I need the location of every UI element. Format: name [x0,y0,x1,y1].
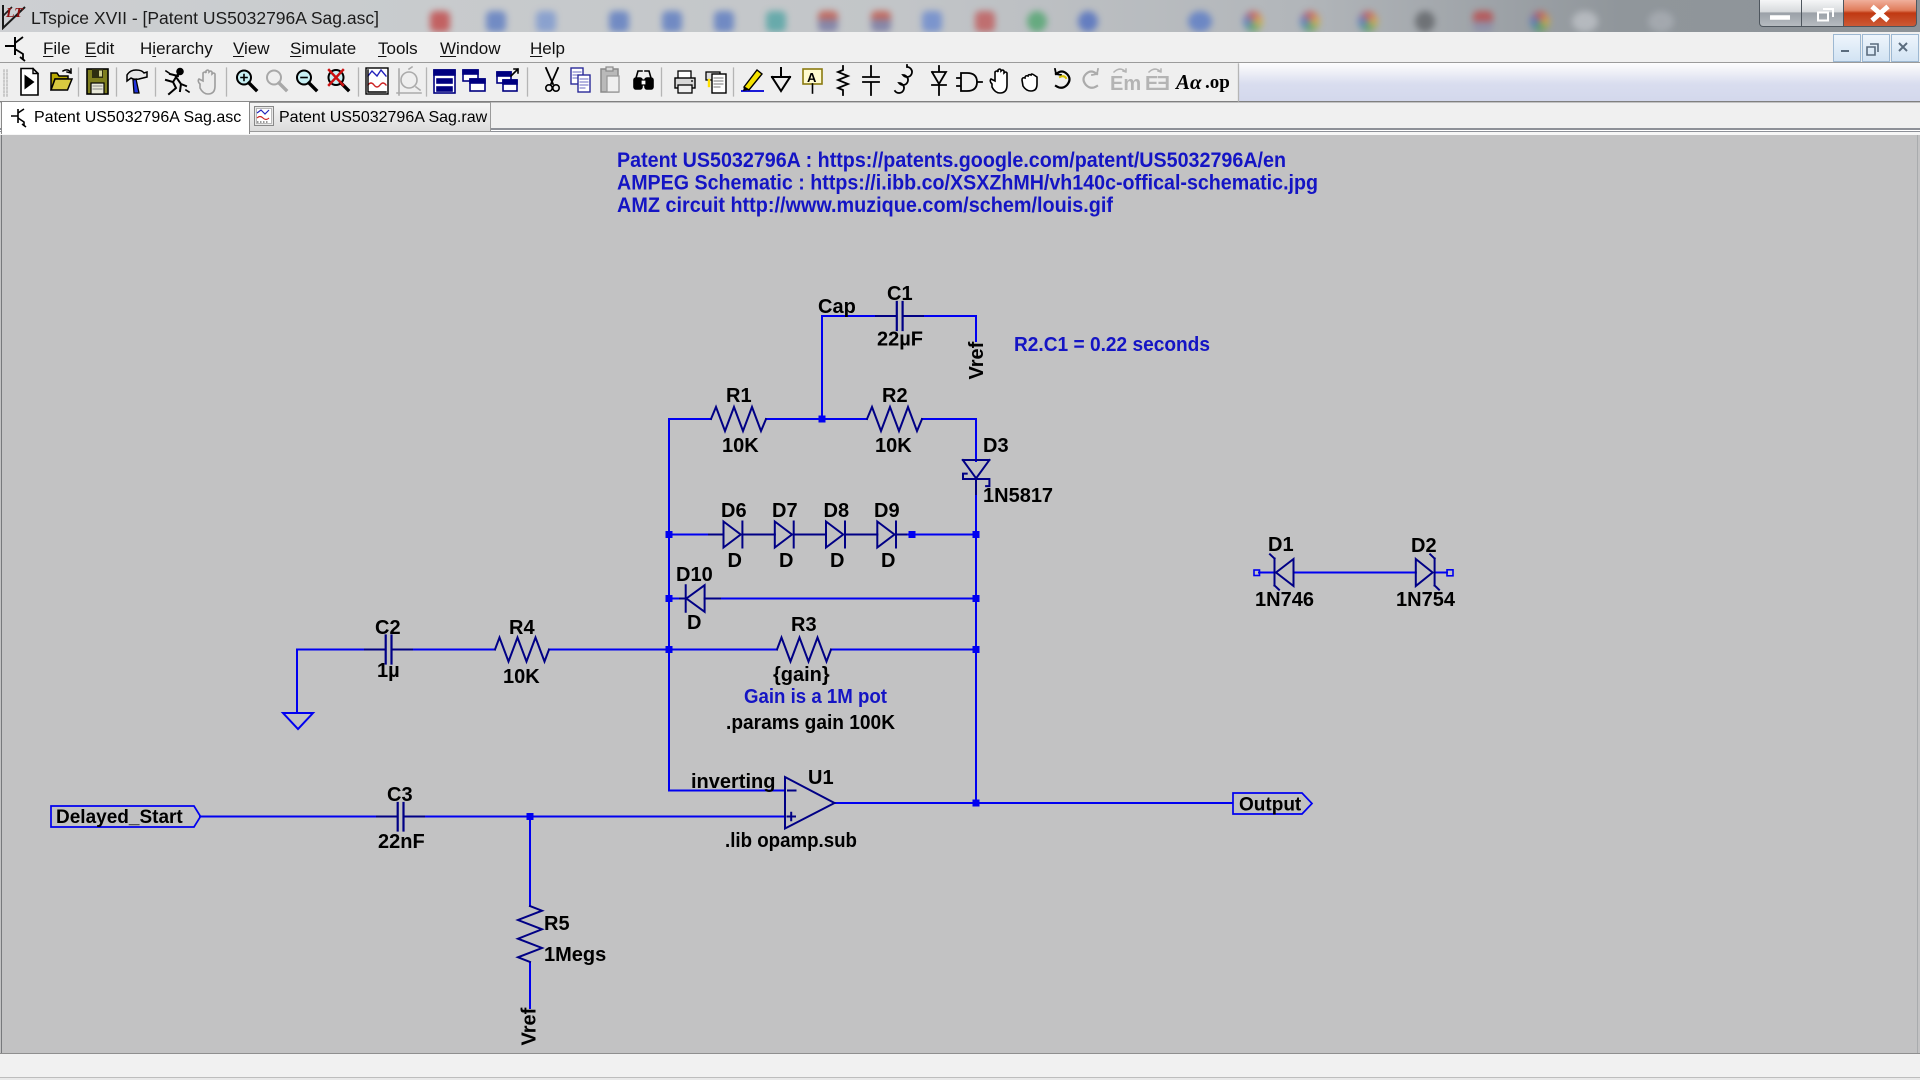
wire noninverting row [200,816,785,818]
port flag Delayed_Start [51,806,201,827]
svg-text:1Megs: 1Megs [544,944,606,966]
svg-text:Output: Output [1239,795,1302,816]
junction right rail diode row [973,531,980,538]
svg-text:R5: R5 [544,913,570,935]
icon diode [932,66,946,95]
svg-text:Gain is a 1M pot: Gain is a 1M pot [744,685,887,708]
svg-text:A: A [807,70,817,85]
wire corner down to node Cap [821,316,823,419]
svg-text:{gain}: {gain} [773,664,830,686]
icon zoom out [297,71,316,91]
icon tile vertically [434,70,455,93]
icon ground [772,68,790,91]
svg-text:Vref: Vref [966,341,988,379]
diode D9 [877,522,896,548]
svg-text:1N746: 1N746 [1255,589,1314,611]
icon Em (disabled) [1110,69,1141,95]
svg-text:D1: D1 [1268,534,1294,556]
svg-text:D: D [779,550,793,572]
separators [79,64,1239,101]
svg-text:D: D [728,550,742,572]
svg-text:D6: D6 [721,500,747,522]
svg-text:.lib opamp.sub: .lib opamp.sub [725,830,857,852]
svg-text:AMPEG Schematic : https://i.ib: AMPEG Schematic : https://i.ibb.co/XSXZh… [617,172,1318,195]
ground [283,713,313,729]
icon halt hand (disabled) [198,70,215,94]
junction right rail R3 row [973,646,980,653]
svg-text:R2.C1 = 0.22 seconds: R2.C1 = 0.22 seconds [1014,333,1210,356]
svg-text:E: E [1157,73,1170,95]
svg-text:R4: R4 [509,617,535,639]
MDI child buttons [1833,34,1861,62]
icon cascade windows [497,69,518,91]
svg-text:D10: D10 [676,564,713,586]
svg-text:.op: .op [1205,72,1230,93]
icon net label [803,69,822,93]
icon undo [1055,69,1070,88]
wire C2 R4 R3 row [297,649,976,651]
junction output row [973,800,980,807]
wire D1 D2 [1259,572,1447,574]
svg-text:Patent US5032796A : https://pa: Patent US5032796A : https://patents.goog… [617,149,1286,172]
svg-text:E: E [1145,73,1158,95]
icon zoom in [237,71,256,91]
junction C3 R5 [527,813,534,820]
svg-text:R1: R1 [726,385,752,407]
resistor R2 [867,407,922,431]
toolbar [0,63,1920,102]
wire R5 top [529,817,531,907]
svg-text:D: D [881,550,895,572]
wire ground drop [296,650,298,714]
svg-text:10K: 10K [875,435,912,457]
svg-text:R2: R2 [882,385,908,407]
icon new schematic [21,69,38,96]
junction left rail diode row [666,531,673,538]
svg-text:1µ: 1µ [377,660,400,682]
icon cut [546,68,559,91]
svg-text:1N754: 1N754 [1396,589,1456,611]
zener diode D1 [1276,559,1294,586]
icon resistor [838,66,848,95]
svg-text:inverting: inverting [691,771,775,793]
svg-text:.params gain 100K: .params gain 100K [726,712,896,734]
wire inverting input [669,790,785,792]
icon open [51,73,68,90]
icon print preview [706,72,726,93]
svg-text:22nF: 22nF [378,831,425,853]
wire left rail [668,419,670,791]
svg-text:D: D [687,612,701,634]
icon find [634,71,653,89]
resistor R3 [777,638,831,662]
svg-text:C3: C3 [387,784,413,806]
icon capacitor [863,66,879,95]
icon inductor [895,65,912,93]
icon tile horizontally [463,70,485,91]
svg-text:D2: D2 [1411,535,1437,557]
icon pan hand [990,69,1007,93]
svg-text:C1: C1 [887,283,913,305]
zener diode D2 [1416,559,1433,586]
pin square D1 [1254,570,1260,576]
svg-text:10K: 10K [722,435,759,457]
junction left rail D10 row [666,595,673,602]
wire R1 R2 row [669,418,976,420]
junction right rail D10 row [973,595,980,602]
icon paste (disabled) [601,67,619,92]
svg-text:D7: D7 [772,500,798,522]
capacitor C3 [377,816,424,818]
svg-text:D9: D9 [874,500,900,522]
svg-text:LT: LT [5,6,24,21]
svg-text:U1: U1 [808,767,834,789]
icon E3 (disabled) [1145,69,1170,95]
icon waveform [366,68,388,94]
diode D7 [775,522,794,548]
junction left rail R3 row [666,646,673,653]
wire diode string row [669,534,976,536]
gripper [4,70,7,96]
resistor R1 [711,407,766,431]
svg-text:C2: C2 [375,617,401,639]
status bar [0,1053,1920,1077]
app icon [2,2,30,30]
junction node Cap [819,416,826,423]
icon zoom back (disabled) [267,71,286,91]
wire right rail lower [975,493,977,803]
diode D8 [826,522,845,548]
wire R5 bottom to Vref [529,963,531,1008]
svg-text:1N5817: 1N5817 [983,485,1053,507]
window title bar [0,0,1920,32]
svg-text:D: D [830,550,844,572]
svg-text:22µF: 22µF [877,329,923,351]
icon run man [166,69,189,94]
diode D6 [709,534,906,536]
capacitor C1 [876,315,923,317]
svg-text:Em: Em [1110,73,1141,95]
svg-text:D3: D3 [983,435,1009,457]
svg-text:10K: 10K [503,666,540,688]
icon save [87,69,108,94]
icon plot settings (disabled) [397,67,421,95]
resistor R5 [518,906,542,962]
icon print [675,71,695,93]
wire D10 row [669,598,976,600]
window side borders for schematic area [1,135,2,1053]
icon copy [571,68,590,92]
resistor R4 [495,638,549,662]
diode D3 schottky [963,460,990,478]
svg-text:AMZ circuit http://www.muzique: AMZ circuit http://www.muzique.com/schem… [617,194,1114,217]
svg-text:Aα: Aα [1174,70,1202,94]
junction diode row mid [909,531,916,538]
svg-text:Cap: Cap [818,296,856,318]
icon redo (disabled) [1084,69,1099,88]
svg-text:R3: R3 [791,614,817,636]
wire output row [835,802,1233,804]
op-amp U1 [785,777,835,829]
svg-text:D8: D8 [824,500,850,522]
capacitor C2 [365,649,412,651]
wire right rail upper to D3 [975,419,977,461]
icon wire pencil [742,70,763,91]
pin square D2 [1447,570,1453,576]
icon control panel hammer [127,70,147,81]
tab bar [0,128,1920,135]
diode D10 [680,598,720,600]
svg-text:Vref: Vref [519,1007,541,1045]
icon zoom fit [329,70,349,90]
menu bar [0,32,1920,63]
svg-text:Delayed_Start: Delayed_Start [56,807,183,828]
icon gate [957,73,982,91]
wire Vref stub [975,316,977,341]
wire top C1 row [822,315,976,317]
port flag Output [1233,793,1312,814]
icon drag hand [1022,74,1037,91]
